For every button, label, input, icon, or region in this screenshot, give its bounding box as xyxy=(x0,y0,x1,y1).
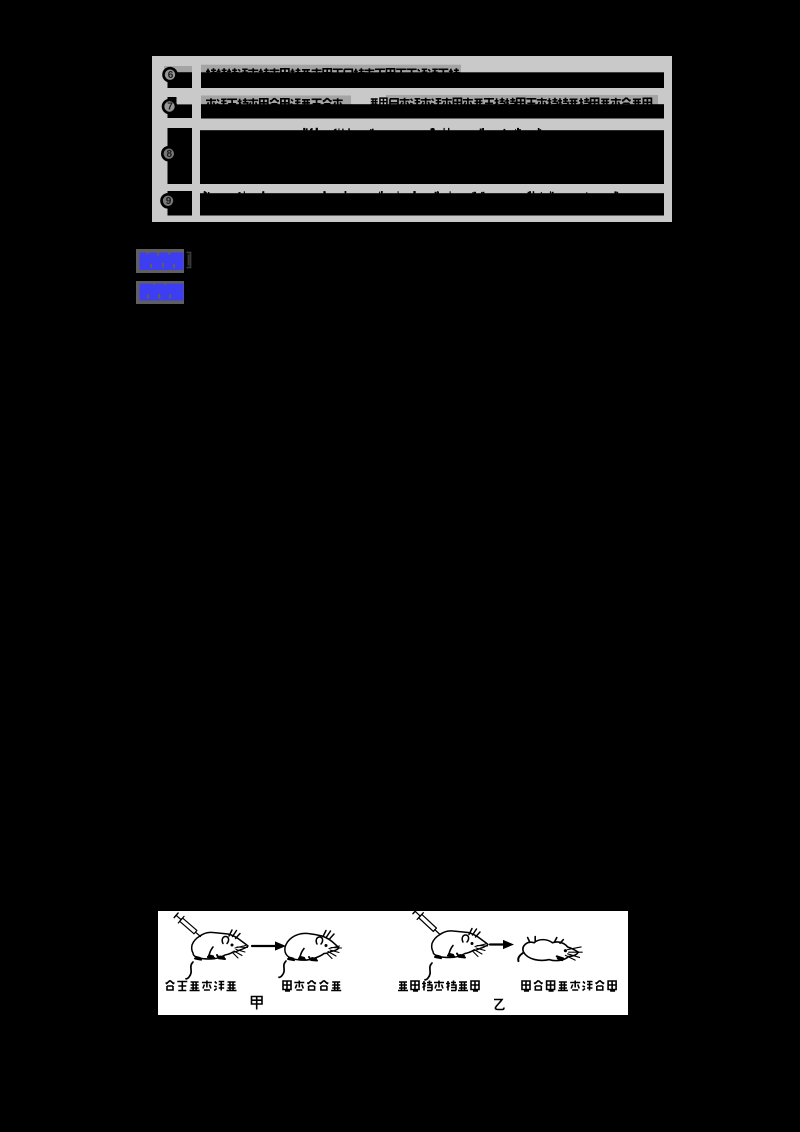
svg-text:6: 6 xyxy=(168,70,174,81)
svg-text:7: 7 xyxy=(167,102,173,113)
svg-text:9: 9 xyxy=(166,196,172,207)
svg-text:8: 8 xyxy=(167,149,173,160)
